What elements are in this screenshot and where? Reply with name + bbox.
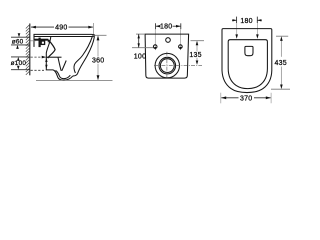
svg-text:370: 370 (240, 95, 252, 102)
svg-text:135: 135 (189, 52, 201, 59)
svg-text:490: 490 (55, 25, 67, 32)
svg-text:180: 180 (160, 24, 172, 31)
svg-text:435: 435 (274, 60, 286, 67)
svg-text:360: 360 (92, 58, 104, 65)
svg-text:ø60: ø60 (12, 38, 24, 45)
svg-text:180: 180 (240, 18, 252, 25)
svg-text:ø100: ø100 (11, 60, 27, 67)
svg-text:100: 100 (134, 54, 146, 61)
